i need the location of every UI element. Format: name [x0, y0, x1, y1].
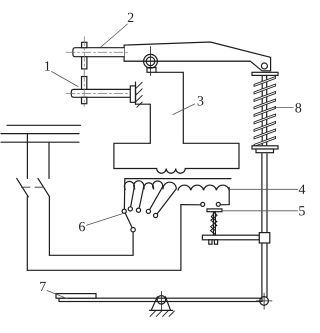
switch link dashes [22, 186, 44, 188]
anchor wall line [135, 82, 137, 104]
coil right end drop [220, 188, 229, 205]
leader for label 4 [229, 188, 297, 190]
coil loop 3 [144, 183, 154, 189]
bus line L3 [1, 141, 79, 143]
rod 1 screw upper shank [82, 77, 87, 90]
anchor hatching [136, 82, 143, 107]
coil loop 4 with tap line to C4 [150, 181, 163, 210]
tap circle C3 [136, 208, 140, 212]
pivot mount [147, 68, 156, 73]
contact bar foot 1 [209, 240, 212, 244]
fulcrum centerline [160, 291, 162, 309]
wire anchor ledge [136, 104, 151, 143]
pivot inner circle [146, 57, 155, 66]
rod 2 (moving contact rod) [73, 48, 124, 57]
wiper arm [125, 213, 132, 228]
right vertical rod upper [262, 154, 267, 297]
beam bottom edge [124, 60, 250, 62]
contact lower bar [202, 235, 259, 240]
switch blade 2 [38, 178, 50, 196]
lever 7 bar [59, 298, 262, 301]
pivot centerline vertical [150, 47, 152, 76]
coil core line [125, 178, 231, 180]
spring 8 bottom cap narrow [256, 149, 274, 153]
contact bridge spring zigzag return strand [211, 213, 217, 231]
rod 2 screw upper cap [82, 42, 87, 47]
wire to fixed contact A [181, 204, 201, 206]
spring 8 top cap [252, 72, 278, 75]
wire switch pole 2 drop [48, 142, 50, 178]
tap circle C4 [146, 209, 150, 213]
leader for label 3 [173, 104, 195, 115]
rod 2 screw centerline [83, 37, 85, 74]
label 2 [128, 13, 134, 22]
wire run to wiper [49, 254, 133, 256]
label 6 [79, 222, 85, 231]
fulcrum triangle [150, 297, 173, 311]
tap circle C2 [128, 207, 132, 211]
contact bridge stem [213, 212, 215, 236]
bus line L2 [1, 133, 79, 135]
spring 8 coils [254, 77, 276, 147]
lever pin cross [257, 293, 273, 309]
fixed contact circle B [216, 202, 220, 206]
coil loop 5 with tap line to C5 [157, 182, 176, 214]
rod 2 screw lower shank [82, 57, 87, 69]
contact bridge spring zigzag [210, 212, 217, 235]
coil loop 1 with tap line to C2 [124, 181, 134, 207]
contact bridge T-bar [207, 209, 222, 212]
label 8 [295, 103, 301, 112]
rod 1 screw centerline [83, 73, 85, 107]
wire up to contact [180, 205, 182, 271]
fulcrum hatching [150, 311, 174, 317]
leader for label 2 [100, 24, 127, 48]
rod 1 (fixed contact rod) [71, 89, 130, 97]
switch blade 1 [17, 178, 29, 196]
label 4 [299, 185, 306, 194]
coil loop 2 with tap line to C3 [134, 181, 144, 209]
rod 1 screw lower cap [82, 97, 87, 103]
wiper pivot circle C6 [131, 228, 135, 232]
wire pole1 down [26, 197, 28, 270]
coil round bumps [178, 185, 229, 190]
rod coupling square [259, 233, 270, 243]
fulcrum pin circle [157, 296, 165, 304]
label 3 [198, 96, 204, 105]
spring 8 center rod [262, 75, 267, 145]
lever 7 step plate [56, 294, 96, 299]
label 7 [40, 282, 46, 291]
label 1 [45, 61, 50, 70]
wire up to wiper pivot [132, 232, 134, 256]
armature 3 slab [114, 143, 239, 173]
label 5 [299, 206, 305, 215]
coil left end drop [123, 179, 125, 210]
bus line L1 [7, 124, 81, 126]
leader for label 1 [52, 72, 79, 87]
rod 2 centerline [66, 51, 129, 53]
wire pole2 down [48, 197, 50, 256]
wire switch pole 1 drop [26, 134, 28, 179]
pivot outer circle [144, 54, 158, 68]
contact bar foot 2 [214, 240, 217, 244]
leader for label 8 [275, 107, 294, 109]
rod 1 centerline [66, 92, 137, 94]
lever right pin circle [260, 297, 269, 306]
beam lever body [124, 42, 271, 71]
tap circle C1 [122, 209, 126, 213]
spring 8 bottom cap wide [252, 146, 278, 149]
leader for label 7 [47, 291, 68, 299]
leader for label 5 [222, 210, 297, 212]
tap circle C5 [154, 213, 158, 217]
fixed contact circle A [201, 202, 205, 206]
armature 3 column [156, 72, 183, 143]
leader for label 6 [87, 214, 123, 226]
wire bottom run [27, 269, 181, 271]
anchor plate [130, 86, 135, 102]
beam tab pin circle [261, 63, 267, 69]
